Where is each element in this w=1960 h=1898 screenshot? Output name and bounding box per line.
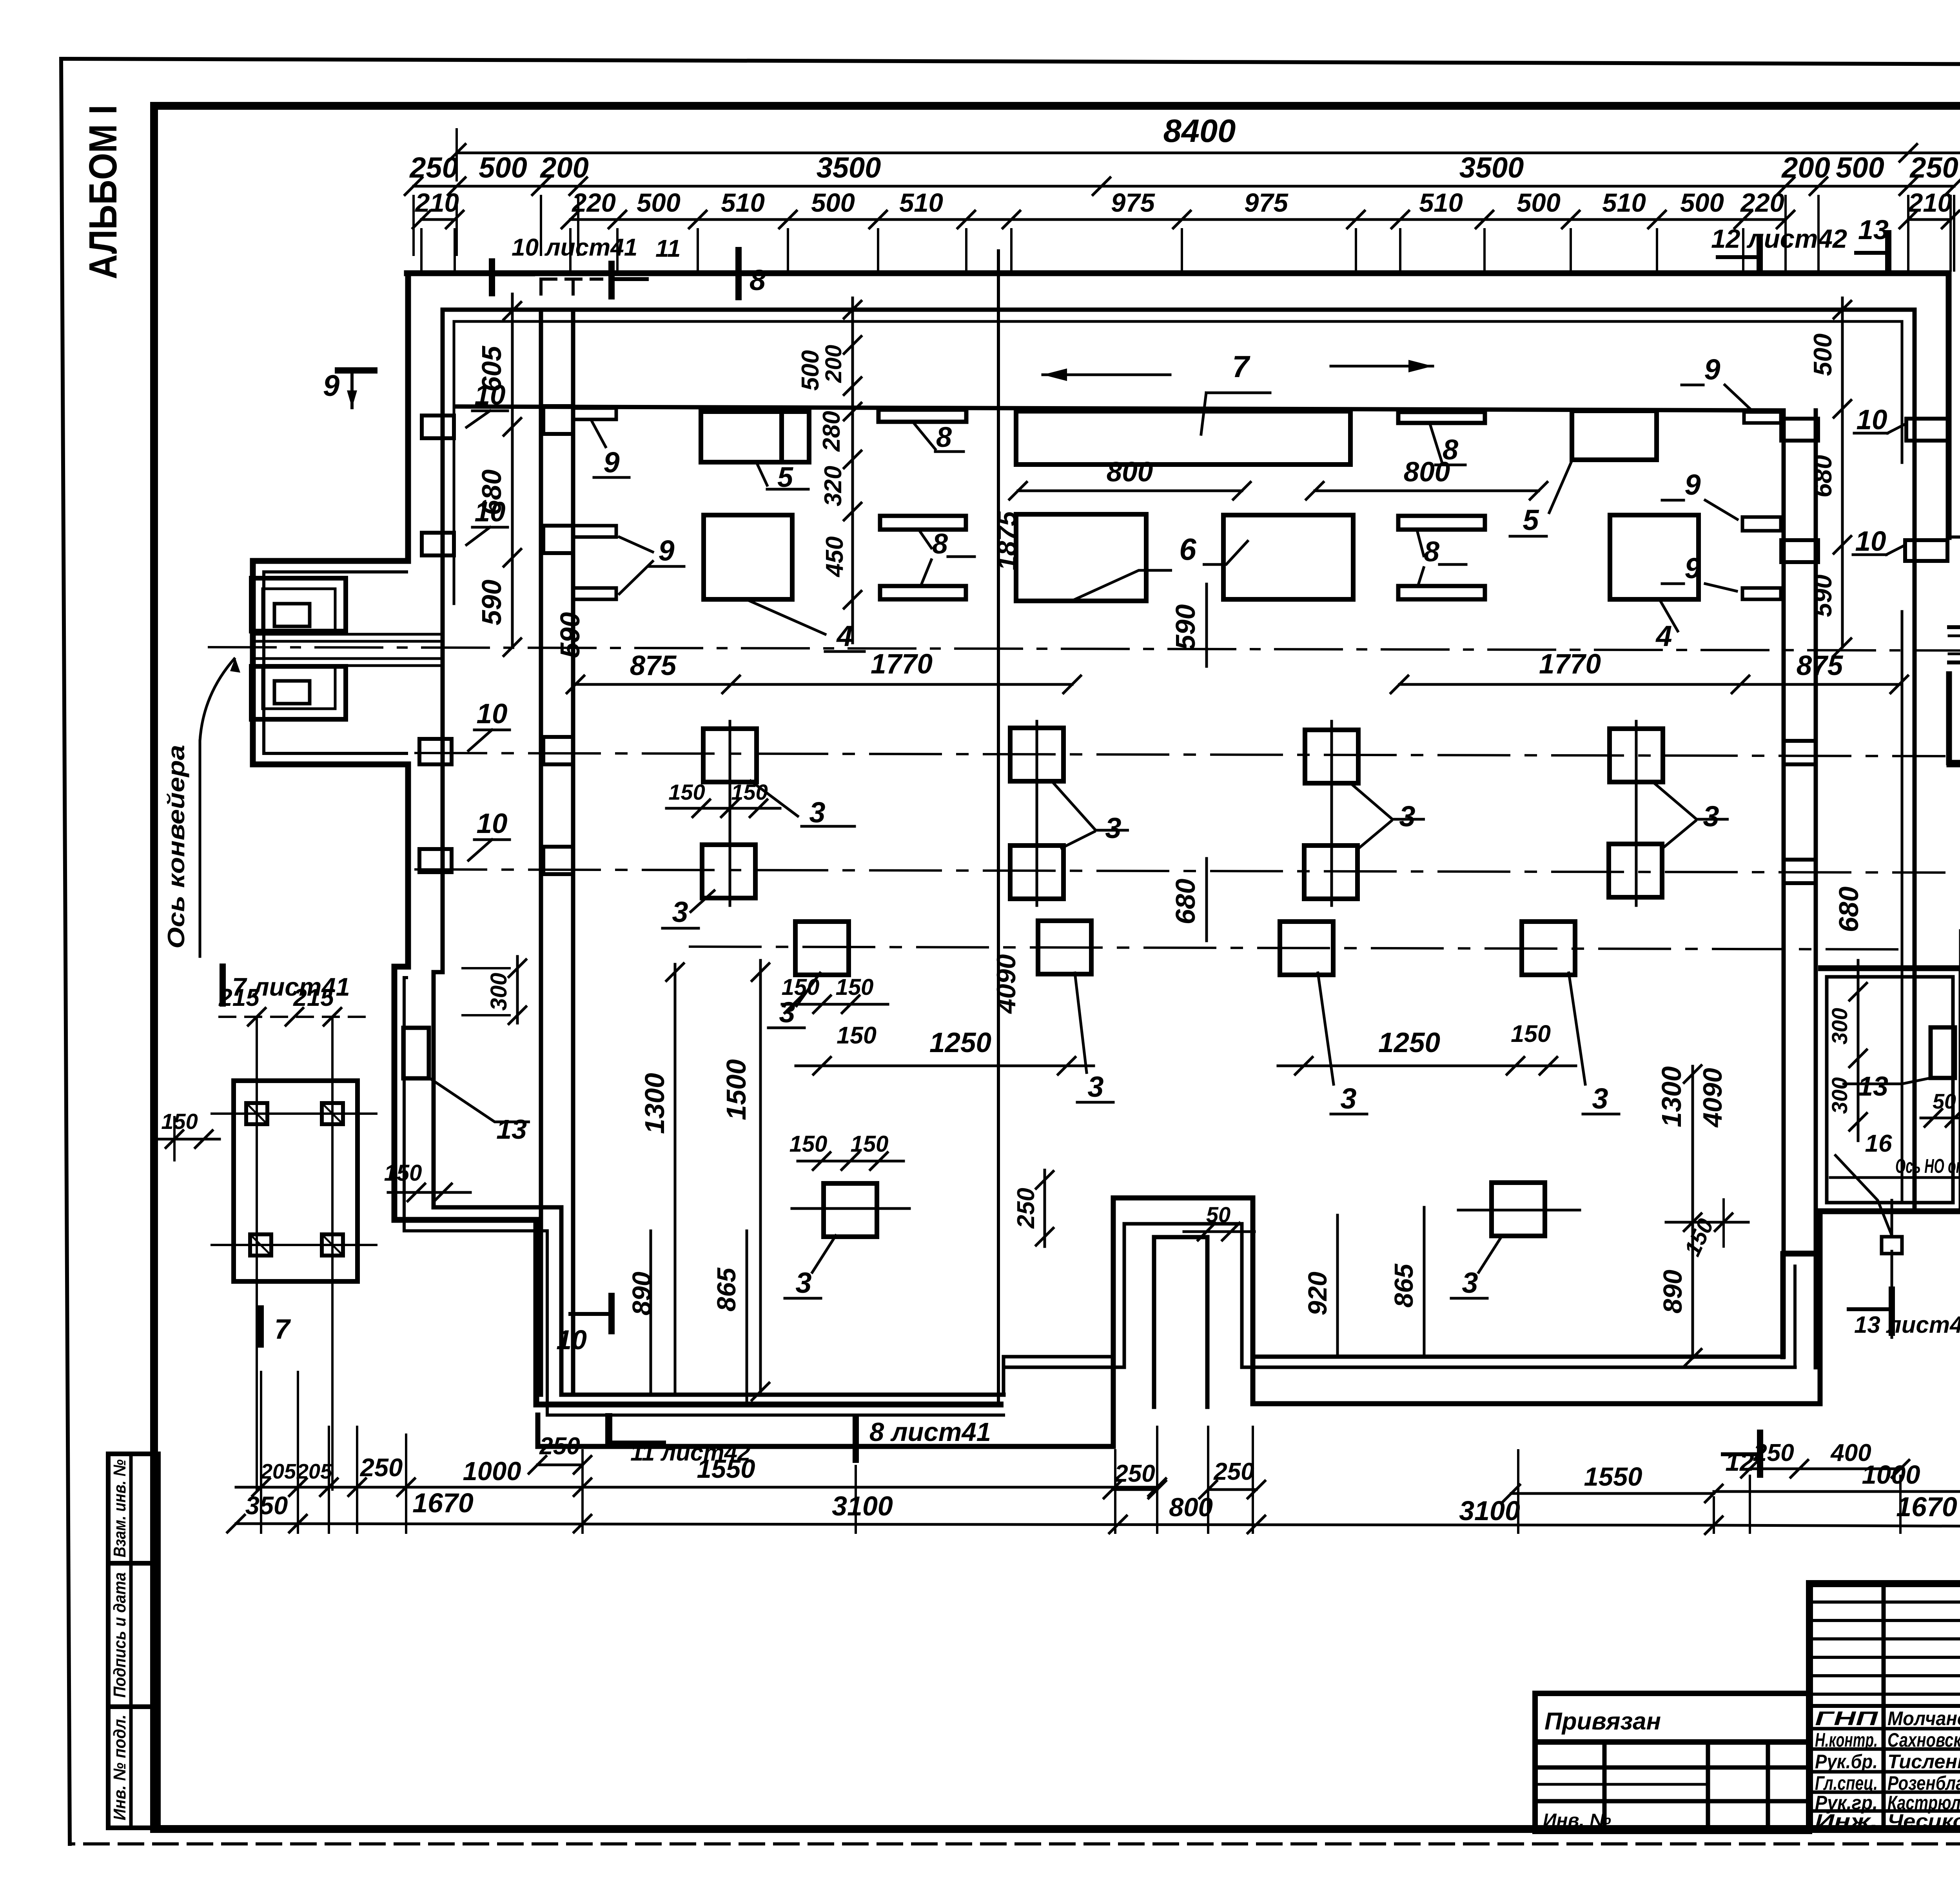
pad 10-1 on left wall — [422, 416, 454, 438]
pad 9 strip 5 — [1742, 517, 1781, 531]
centerline row C — [690, 947, 1905, 949]
pad 8 pair right — [1398, 516, 1485, 530]
svg-text:500: 500 — [1680, 188, 1724, 218]
pad 10-3 on left wall — [419, 739, 452, 764]
border outer frame — [61, 59, 1960, 66]
right band pad 3 — [1784, 741, 1816, 764]
svg-text:Ось НО отп.-0,350: Ось НО отп.-0,350 — [1895, 1155, 1960, 1177]
svg-text:975: 975 — [1111, 188, 1156, 218]
svg-text:1550: 1550 — [1584, 1462, 1642, 1492]
plan bottom inner line — [561, 1393, 1004, 1397]
pad 8 pair left — [880, 516, 966, 530]
svg-text:300: 300 — [1827, 1077, 1852, 1114]
vdim 1300 left — [674, 964, 677, 1395]
svg-text:680: 680 — [1808, 455, 1837, 497]
svg-text:11 лист42: 11 лист42 — [630, 1439, 750, 1466]
svg-text:Тисленко: Тисленко — [1887, 1751, 1960, 1773]
svg-text:12 лист42: 12 лист42 — [1711, 224, 1847, 254]
svg-text:890: 890 — [627, 1272, 657, 1316]
svg-text:3: 3 — [672, 896, 688, 928]
left band pad 2 — [543, 526, 573, 553]
svg-text:9: 9 — [603, 446, 619, 479]
bl plate pad 1 — [246, 1103, 267, 1124]
svg-text:7 лист41: 7 лист41 — [232, 973, 350, 1001]
svg-text:10: 10 — [477, 808, 508, 839]
pad 3 rowC-2 — [1038, 921, 1091, 974]
pad 3 rowC-4 — [1522, 922, 1575, 975]
svg-text:150: 150 — [836, 974, 874, 1000]
notch slot — [1152, 1237, 1156, 1407]
dim row3 — [421, 218, 455, 221]
dim 150x2 A1 — [666, 807, 780, 810]
plan conveyor bump outline — [253, 561, 408, 764]
svg-text:13: 13 — [496, 1114, 527, 1145]
svg-text:10 лист41: 10 лист41 — [512, 234, 637, 261]
svg-text:Сахновская: Сахновская — [1887, 1729, 1960, 1751]
svg-text:250: 250 — [359, 1453, 403, 1482]
svg-text:975: 975 — [1244, 188, 1289, 218]
bl plate axes — [256, 1017, 258, 1490]
pad 8 strip top-left — [878, 410, 966, 422]
bottom extension lines right — [1517, 1450, 1519, 1533]
svg-text:Инв. № подл.: Инв. № подл. — [110, 1715, 129, 1820]
bl mark 10 bottom — [608, 1296, 615, 1331]
plan outer left wall upper — [405, 273, 411, 561]
svg-text:150: 150 — [1511, 1020, 1551, 1047]
pad 3 rowB-1 — [702, 845, 755, 898]
svg-text:4090: 4090 — [991, 954, 1021, 1014]
plan right step — [1949, 537, 1960, 601]
svg-text:Чесиков: Чесиков — [1887, 1810, 1960, 1832]
plan inner contour right — [1913, 310, 1917, 1211]
axis vertical — [997, 251, 1000, 1404]
svg-text:12: 12 — [1725, 1447, 1754, 1476]
svg-text:865: 865 — [1389, 1263, 1419, 1308]
vdim 1500 — [759, 960, 762, 1395]
svg-text:1770: 1770 — [871, 649, 933, 680]
svg-text:Привязан: Привязан — [1544, 1708, 1661, 1735]
dim row 1770-875 right — [1399, 683, 1899, 686]
svg-text:300: 300 — [1827, 1008, 1852, 1044]
title block grid — [1809, 1584, 1960, 1829]
svg-text:800: 800 — [1169, 1493, 1213, 1522]
pad 9 strip 3 — [573, 588, 616, 599]
svg-text:210: 210 — [1907, 188, 1952, 218]
pad 9 strip 6 — [1742, 588, 1781, 599]
right interior band — [1782, 410, 1786, 1357]
svg-text:3500: 3500 — [1459, 151, 1524, 184]
svg-text:4: 4 — [836, 620, 853, 652]
sheet mark 10 list41 — [489, 261, 495, 293]
right wing dim 50 — [1921, 1117, 1960, 1120]
svg-text:3100: 3100 — [1459, 1495, 1520, 1526]
notch tower outer — [1111, 1198, 1116, 1446]
right wing pad 13 — [1931, 1027, 1955, 1078]
plan inner contour left — [441, 310, 445, 972]
top band bottom line — [455, 406, 1782, 410]
svg-text:3: 3 — [795, 1267, 811, 1299]
svg-text:9: 9 — [1704, 353, 1720, 386]
svg-text:200: 200 — [1781, 151, 1830, 184]
conveyor axis line — [209, 647, 1960, 651]
svg-text:500: 500 — [1836, 151, 1884, 184]
svg-text:8: 8 — [932, 528, 948, 560]
pad col axis 1 — [729, 721, 731, 905]
svg-text:865: 865 — [712, 1267, 741, 1312]
bottom rowB — [236, 1524, 1714, 1525]
svg-text:Рук.бр.: Рук.бр. — [1815, 1751, 1878, 1773]
svg-text:Розенблат: Розенблат — [1887, 1772, 1960, 1794]
svg-text:1670: 1670 — [412, 1488, 474, 1518]
pad 6 b — [1223, 515, 1353, 599]
svg-text:920: 920 — [1303, 1272, 1332, 1316]
vchain left 605-680-590 — [511, 294, 514, 647]
svg-text:3: 3 — [1340, 1082, 1356, 1115]
svg-text:320: 320 — [820, 466, 847, 506]
pad 8 strip top-right — [1398, 412, 1485, 423]
privyazan grid — [1602, 1742, 1607, 1831]
svg-text:500: 500 — [797, 350, 824, 390]
svg-text:50: 50 — [1933, 1090, 1956, 1113]
centerline row B — [416, 869, 1944, 873]
vchain right 500-680-590 — [1841, 298, 1844, 647]
svg-text:220: 220 — [1740, 188, 1784, 218]
plan outer top wall — [407, 270, 1949, 276]
arrow left — [1043, 374, 1170, 376]
plan inner left lower — [434, 972, 561, 1395]
left interior band — [539, 310, 543, 1395]
dim 50 mid — [1184, 1230, 1254, 1233]
privyazan box — [1535, 1693, 1809, 1831]
svg-text:205: 205 — [260, 1460, 296, 1483]
svg-text:10: 10 — [477, 699, 508, 729]
svg-text:510: 510 — [1419, 188, 1463, 218]
svg-text:500: 500 — [811, 188, 855, 218]
vdim 865 left — [746, 1231, 748, 1404]
pad col axis 2 — [1036, 721, 1038, 905]
svg-text:3: 3 — [1399, 800, 1415, 833]
bl plate pad 4 — [322, 1234, 343, 1256]
svg-text:Инж.: Инж. — [1815, 1810, 1878, 1832]
pad 10 right a — [1906, 419, 1949, 441]
right band pad 4 — [1784, 860, 1816, 883]
svg-text:3: 3 — [1592, 1082, 1608, 1115]
pad 3 rowD-1 — [824, 1183, 877, 1237]
dim 800 b — [1315, 490, 1539, 492]
svg-text:8: 8 — [750, 264, 766, 296]
svg-text:250: 250 — [1213, 1458, 1254, 1485]
svg-text:875: 875 — [630, 650, 677, 681]
neck lines — [1949, 625, 1960, 629]
dim 800 a — [1018, 490, 1242, 492]
svg-text:1670: 1670 — [1896, 1492, 1957, 1522]
conveyor bracket — [251, 578, 346, 631]
pad 3 rowA-2 — [1010, 728, 1063, 781]
svg-text:590: 590 — [1170, 604, 1201, 650]
svg-text:13: 13 — [1858, 214, 1889, 245]
dim 150-150 C1 — [782, 1003, 888, 1006]
pad 9 strip 4 — [1744, 412, 1781, 423]
dim 1250 right — [1278, 1065, 1576, 1067]
pad 5 left — [701, 412, 809, 462]
mark 12 bottom — [1757, 1433, 1763, 1475]
bottom rowA left — [236, 1486, 583, 1489]
left band pad 4 — [543, 847, 573, 874]
svg-text:510: 510 — [899, 188, 943, 218]
svg-text:8: 8 — [936, 422, 952, 453]
left wing inner pad — [403, 1028, 429, 1078]
svg-text:350: 350 — [245, 1491, 288, 1520]
left wing dim 150 — [388, 1191, 470, 1194]
plan bottom outer line — [538, 1444, 1113, 1449]
svg-text:680: 680 — [1833, 887, 1864, 933]
svg-text:250: 250 — [409, 151, 458, 184]
svg-text:50: 50 — [1206, 1202, 1230, 1227]
svg-text:3: 3 — [809, 796, 825, 829]
svg-text:590: 590 — [476, 580, 507, 626]
svg-text:300: 300 — [486, 973, 512, 1011]
plan right wing outline — [1782, 968, 1960, 1254]
svg-text:500: 500 — [479, 151, 527, 184]
dim 150-150 D1 — [798, 1160, 904, 1163]
dim 150 right small — [1666, 1221, 1748, 1224]
left wing dims 300 — [516, 956, 519, 1023]
svg-text:1875: 1875 — [992, 511, 1022, 570]
pad 3 rowC-3 — [1280, 922, 1333, 975]
pad 10 right b — [1905, 540, 1947, 561]
svg-text:400: 400 — [1830, 1439, 1871, 1466]
bottom extension lines — [260, 1372, 262, 1533]
svg-text:3: 3 — [1462, 1267, 1478, 1299]
svg-text:3500: 3500 — [817, 151, 881, 184]
svg-text:3100: 3100 — [832, 1491, 893, 1521]
svg-text:150: 150 — [161, 1109, 198, 1134]
svg-text:АЛЬБОМ I: АЛЬБОМ I — [81, 105, 125, 279]
pad 3 rowC-1 — [795, 922, 849, 975]
mark 8 list41 — [853, 1417, 859, 1460]
svg-text:5: 5 — [1523, 504, 1539, 536]
vdim 1300 right — [1691, 1066, 1694, 1358]
svg-text:Инв. №: Инв. № — [1543, 1810, 1611, 1831]
right band pad 1 — [1781, 419, 1818, 441]
pad 9 strip 2 — [573, 526, 616, 537]
pad 4 right — [1610, 515, 1699, 599]
svg-text:1300: 1300 — [639, 1073, 670, 1134]
svg-text:Взам. инв. №: Взам. инв. № — [110, 1459, 129, 1557]
sheet mark 8 top — [735, 250, 742, 297]
vchain mid — [851, 298, 854, 643]
svg-text:6: 6 — [1179, 532, 1196, 566]
svg-text:16: 16 — [1865, 1130, 1892, 1157]
bottom 250 upper — [537, 1464, 583, 1466]
svg-text:510: 510 — [1602, 188, 1646, 218]
svg-text:605: 605 — [476, 346, 507, 392]
svg-text:200: 200 — [821, 345, 846, 383]
plan left wing offset — [404, 978, 547, 1415]
svg-text:150: 150 — [668, 780, 705, 804]
svg-text:10: 10 — [1855, 526, 1886, 557]
svg-text:150: 150 — [851, 1131, 889, 1157]
bottom 250-400 upper right — [1750, 1468, 1900, 1470]
svg-text:3: 3 — [1105, 812, 1121, 844]
pad 10-4 on left wall — [419, 849, 452, 872]
svg-text:1500: 1500 — [721, 1059, 751, 1120]
svg-text:1250: 1250 — [1378, 1027, 1440, 1058]
svg-text:7: 7 — [1232, 349, 1250, 384]
svg-text:205: 205 — [296, 1460, 332, 1483]
bl mark 7 bottom — [258, 1308, 264, 1345]
mark 11 list42 — [605, 1417, 612, 1443]
mark 13 list42 — [1889, 1290, 1895, 1333]
sheet mark 11 — [608, 264, 615, 296]
left band pad 3 — [543, 737, 573, 764]
svg-text:250: 250 — [1909, 151, 1958, 184]
pad 7 long — [1016, 411, 1350, 465]
svg-text:3: 3 — [1087, 1071, 1103, 1103]
dim row 875-1770 left — [575, 683, 1072, 686]
svg-text:280: 280 — [818, 411, 845, 452]
svg-text:450: 450 — [821, 536, 848, 577]
svg-text:590: 590 — [1808, 575, 1837, 617]
dim row2 — [414, 185, 1954, 188]
svg-text:8400: 8400 — [1163, 113, 1236, 149]
pad 3 rowD-2 — [1492, 1183, 1545, 1236]
vdim 865 right — [1423, 1207, 1426, 1357]
svg-text:250: 250 — [539, 1433, 580, 1460]
bl dim 150 left — [157, 1138, 220, 1141]
arrow right — [1331, 365, 1433, 368]
svg-text:10: 10 — [1857, 405, 1887, 435]
bl dim 215-215 — [220, 1016, 368, 1018]
svg-text:680: 680 — [1170, 879, 1201, 925]
svg-text:9: 9 — [658, 534, 674, 567]
pad 9 strip 1 — [573, 408, 616, 419]
pad 3 rowB-2 — [1010, 846, 1063, 899]
pad 3 rowB-4 — [1609, 844, 1662, 897]
svg-text:7: 7 — [274, 1314, 291, 1345]
svg-text:500: 500 — [1517, 188, 1561, 218]
dim extension lines — [412, 196, 415, 255]
svg-text:8 лист41: 8 лист41 — [869, 1417, 991, 1447]
pad col axis 3 — [1330, 721, 1333, 905]
svg-text:200: 200 — [539, 151, 588, 184]
bl plate pad 2 — [322, 1103, 343, 1124]
pad 3 rowB-3 — [1304, 846, 1357, 899]
svg-text:9: 9 — [323, 369, 339, 403]
right wing dims 300-300 — [1857, 960, 1860, 1141]
bl mark 7 list41 — [220, 967, 226, 1003]
svg-text:680: 680 — [476, 470, 507, 515]
bottom notch dims — [1112, 1488, 1157, 1491]
bottom rowA right — [1511, 1492, 1714, 1495]
plan inner contour top — [443, 308, 1915, 312]
vdim 890 left — [650, 1231, 652, 1395]
plan outer left wall lower — [405, 764, 411, 967]
bottom-left plate — [234, 1081, 358, 1281]
pad 5 right — [1572, 411, 1657, 460]
svg-text:8: 8 — [1424, 536, 1439, 568]
dim row1 8400-2200 — [457, 152, 1960, 154]
pad 6 a — [1016, 514, 1146, 601]
svg-text:250: 250 — [1114, 1460, 1155, 1487]
svg-text:875: 875 — [1797, 650, 1844, 681]
svg-text:13 лист42: 13 лист42 — [1854, 1312, 1960, 1338]
svg-text:10: 10 — [556, 1325, 587, 1355]
svg-text:1250: 1250 — [929, 1027, 991, 1058]
svg-text:150: 150 — [384, 1160, 422, 1186]
svg-text:150: 150 — [837, 1022, 877, 1049]
svg-text:210: 210 — [414, 188, 459, 218]
svg-text:890: 890 — [1658, 1270, 1688, 1314]
centerline row D — [792, 1207, 909, 1210]
svg-text:150: 150 — [789, 1131, 828, 1157]
svg-text:4090: 4090 — [1698, 1068, 1728, 1128]
left interior band dashes — [539, 279, 543, 302]
notch tower inner — [1123, 1224, 1126, 1367]
right wing inner lines — [1827, 977, 1953, 1203]
pad 4 left — [704, 515, 792, 599]
plan left wing outline — [394, 967, 1004, 1404]
centerline row A — [416, 753, 1944, 756]
svg-text:1770: 1770 — [1539, 649, 1601, 680]
svg-text:4: 4 — [1655, 620, 1672, 652]
svg-text:Подпись и дата: Подпись и дата — [110, 1572, 129, 1698]
svg-text:Молчанов: Молчанов — [1887, 1707, 1960, 1729]
svg-text:Ось конвейера: Ось конвейера — [163, 745, 189, 949]
pad 3 rowA-1 — [703, 729, 757, 782]
svg-text:590: 590 — [555, 612, 585, 658]
pad col axis 4 — [1635, 721, 1638, 905]
svg-text:3: 3 — [1703, 800, 1719, 833]
pad 3 rowA-4 — [1610, 729, 1663, 782]
svg-text:500: 500 — [1808, 334, 1837, 376]
pad 3 rowA-3 — [1305, 730, 1358, 783]
svg-text:150: 150 — [782, 974, 820, 1000]
right band pad 2 — [1781, 540, 1818, 562]
bottom rowB right — [1714, 1525, 1960, 1527]
svg-text:510: 510 — [721, 188, 765, 218]
axis dashed below wing — [1891, 1200, 1893, 1345]
bl plate pad 3 — [250, 1234, 271, 1256]
svg-text:11: 11 — [655, 235, 681, 262]
svg-text:500: 500 — [637, 188, 681, 218]
svg-text:150: 150 — [731, 780, 768, 804]
bottom rowA mid — [583, 1486, 1157, 1489]
svg-text:800: 800 — [1404, 457, 1450, 488]
plan right wall below neck — [1946, 674, 1952, 762]
svg-text:9: 9 — [1684, 468, 1700, 501]
dim 1250 left — [796, 1065, 1094, 1067]
svg-text:250: 250 — [1013, 1188, 1040, 1228]
left strip table box — [108, 1454, 158, 1828]
svg-text:ГНП: ГНП — [1815, 1707, 1878, 1729]
svg-text:Н.контр.: Н.контр. — [1815, 1729, 1878, 1751]
svg-text:800: 800 — [1107, 457, 1153, 488]
svg-text:1300: 1300 — [1656, 1066, 1687, 1127]
vdim 920 right — [1336, 1215, 1339, 1357]
pad 10-2 on left wall — [422, 533, 454, 555]
svg-text:Гл.спец.: Гл.спец. — [1815, 1772, 1878, 1794]
plan conveyor bump inner — [264, 572, 408, 753]
svg-text:1000: 1000 — [463, 1457, 521, 1486]
left band pad 1 — [543, 406, 573, 434]
plan outer right wall upper — [1946, 273, 1952, 537]
section mark 9 left — [338, 367, 374, 374]
svg-text:13: 13 — [1858, 1071, 1888, 1101]
plan right lower wall — [1780, 1254, 1786, 1357]
